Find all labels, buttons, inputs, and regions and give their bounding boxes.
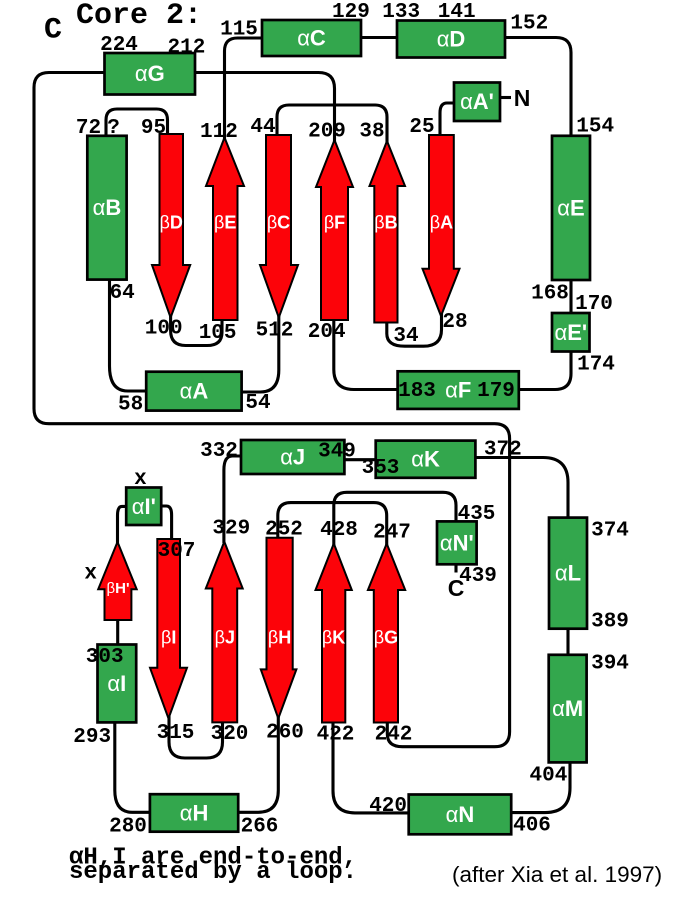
- wire alphaG-left long loop to betaG-bottom (224 to 242): [34, 73, 510, 747]
- svg-text:αK: αK: [411, 447, 440, 472]
- wire alphaJ-left to betaJ-tip (332 to 329): [224, 456, 241, 543]
- svg-text:332: 332: [200, 440, 238, 463]
- svg-text:141: 141: [438, 1, 476, 24]
- wire alphaG-right to betaF-tip (212 to 209): [195, 73, 335, 143]
- svg-text:252: 252: [265, 518, 303, 541]
- helix αM (alphaM): [549, 655, 587, 763]
- svg-text:βI: βI: [161, 628, 176, 648]
- svg-text:329: 329: [212, 518, 250, 541]
- wire alphaAp-right to N-terminus: [500, 96, 511, 99]
- svg-text:C: C: [448, 575, 465, 601]
- svg-text:320: 320: [211, 723, 249, 746]
- svg-text:βA: βA: [430, 213, 453, 233]
- svg-text:34: 34: [393, 325, 418, 348]
- svg-text:Core 2:: Core 2:: [76, 0, 202, 33]
- helix αI (alphaI): [98, 645, 137, 723]
- svg-text:266: 266: [241, 816, 279, 839]
- svg-text:168: 168: [531, 283, 569, 306]
- svg-text:307: 307: [158, 540, 196, 563]
- svg-text:439: 439: [459, 565, 497, 588]
- svg-text:αE': αE': [554, 320, 587, 345]
- svg-text:280: 280: [109, 816, 147, 839]
- svg-text:(after Xia et al. 1997): (after Xia et al. 1997): [452, 862, 662, 887]
- svg-text:204: 204: [308, 321, 346, 344]
- strand βC (betaC) down-arrow: [260, 135, 298, 318]
- svg-text:αG: αG: [135, 61, 165, 86]
- strand βF (betaF) up-arrow: [316, 140, 353, 320]
- wire alphaIp-right to betaI-top (307): [161, 506, 171, 540]
- svg-text:44: 44: [250, 116, 275, 139]
- wire betaK-tip to alphaNp-top (428 to 435): [334, 492, 456, 546]
- svg-text:512: 512: [256, 320, 294, 343]
- svg-text:αA': αA': [460, 89, 494, 114]
- svg-text:95: 95: [141, 117, 166, 140]
- wire alphaB-top to betaD-top (72? to 95): [106, 109, 168, 137]
- wire alphaI-bottom to alphaH-left (293 to 280): [115, 722, 150, 812]
- wire betaD-tip to betaE-bottom (100 to 105): [171, 315, 222, 346]
- wire alphaJ-right to alphaK-left (349 to 353): [344, 458, 375, 461]
- svg-text:406: 406: [513, 815, 551, 838]
- svg-text:αM: αM: [552, 696, 583, 721]
- svg-text:βD: βD: [160, 213, 183, 233]
- strand βA (betaA) down-arrow: [423, 135, 460, 316]
- svg-text:βH': βH': [106, 580, 129, 597]
- svg-text:64: 64: [110, 282, 135, 305]
- helix αB (alphaB): [87, 136, 126, 280]
- svg-text:x: x: [134, 468, 147, 491]
- helix αD (alphaD): [397, 21, 505, 58]
- svg-text:βB: βB: [374, 213, 397, 233]
- helix αA' (alphaAp): [454, 83, 500, 122]
- strand βH (betaH) down-arrow: [261, 538, 297, 719]
- helix αL (alphaL): [549, 518, 587, 629]
- helix αN' (alphaNp): [437, 521, 477, 564]
- wire alphaL-bottom to alphaM-top (389 to 394): [566, 628, 569, 655]
- wire betaB-bottom to betaA-tip (34 to 28): [387, 313, 442, 346]
- svg-text:115: 115: [220, 19, 258, 42]
- helix αA (alphaA): [146, 372, 241, 411]
- svg-text:389: 389: [591, 611, 629, 634]
- strand βG (betaG) up-arrow: [368, 544, 405, 723]
- svg-text:αN: αN: [446, 802, 475, 827]
- svg-text:174: 174: [577, 354, 615, 377]
- svg-text:αD: αD: [437, 27, 466, 52]
- svg-text:βE: βE: [214, 213, 236, 233]
- svg-text:αB: αB: [93, 195, 122, 220]
- wire betaH-top to betaG-tip (252 to 247): [278, 503, 387, 548]
- svg-text:420: 420: [369, 795, 407, 818]
- svg-text:404: 404: [529, 765, 567, 788]
- svg-text:βH: βH: [268, 628, 291, 648]
- svg-text:372: 372: [484, 438, 522, 461]
- svg-text:374: 374: [591, 520, 629, 543]
- strand βJ (betaJ) up-arrow: [206, 542, 243, 723]
- wire alphaH-right to betaH-tip (266 to 260): [238, 716, 278, 812]
- strand βK (betaK) up-arrow: [316, 544, 352, 723]
- helix αF (alphaF): [398, 371, 519, 409]
- wire betaC-top to betaB-tip (44 to 38): [277, 105, 387, 144]
- helix αK (alphaK): [376, 441, 476, 478]
- wire alphaNp-bottom to C-terminus (439): [454, 564, 457, 573]
- svg-text:αN': αN': [440, 530, 474, 555]
- svg-text:315: 315: [157, 722, 195, 745]
- svg-text:183: 183: [398, 380, 436, 403]
- strand βB (betaB) up-arrow: [370, 141, 406, 323]
- svg-text:αJ: αJ: [280, 445, 305, 470]
- helix αN (alphaN): [409, 795, 512, 835]
- wire betaA-top to alphaAp-left (25): [440, 103, 454, 136]
- svg-text:αH: αH: [180, 801, 209, 826]
- svg-text:βK: βK: [322, 628, 345, 648]
- svg-text:242: 242: [375, 724, 413, 747]
- svg-text:394: 394: [591, 653, 629, 676]
- svg-text:179: 179: [477, 380, 515, 403]
- svg-text:435: 435: [458, 503, 496, 526]
- svg-text:βC: βC: [267, 213, 290, 233]
- svg-text:58: 58: [118, 394, 143, 417]
- svg-text:293: 293: [73, 726, 111, 749]
- wire alphaD-right to alphaE-top (152 to 154): [505, 38, 571, 137]
- svg-text:209: 209: [308, 121, 346, 144]
- svg-text:247: 247: [373, 522, 411, 545]
- svg-text:72: 72: [76, 117, 101, 140]
- svg-text:54: 54: [245, 392, 270, 415]
- wire betaE-tip to alphaC-left (112 to 115): [225, 38, 263, 140]
- svg-text:353: 353: [362, 457, 400, 480]
- strand βE (betaE) up-arrow: [206, 138, 244, 321]
- svg-text:105: 105: [199, 322, 237, 345]
- svg-text:152: 152: [510, 13, 548, 36]
- wire alphaK-right to alphaL-top (372 to 374): [475, 458, 568, 519]
- helix αJ (alphaJ): [241, 440, 344, 474]
- svg-text:38: 38: [359, 121, 384, 144]
- strand βI (betaI) down-arrow: [150, 539, 187, 719]
- svg-text:303: 303: [86, 646, 124, 669]
- wire alphaN-right to alphaM-bottom (406 to 404): [510, 763, 570, 813]
- svg-text:αE: αE: [557, 195, 584, 220]
- wire betaK-bottom to alphaN-left (422 to 420): [333, 721, 409, 813]
- wire betaI-tip to betaJ-bottom (315 to 320): [169, 716, 223, 758]
- svg-text:154: 154: [576, 115, 614, 138]
- helix αH (alphaH): [150, 794, 238, 832]
- wire alphaEp-bottom to alphaF-right (174 to 179): [519, 351, 571, 390]
- svg-text:100: 100: [145, 317, 183, 340]
- svg-text:αA: αA: [180, 379, 209, 404]
- wire alphaA-right to betaC-tip (54 to 512): [242, 316, 279, 392]
- svg-text:129: 129: [332, 1, 370, 24]
- svg-text:133: 133: [382, 1, 420, 24]
- wire alphaIp-left to betaHp-tip: [118, 506, 127, 543]
- svg-text:25: 25: [409, 116, 434, 139]
- svg-text:αL: αL: [555, 561, 581, 586]
- svg-text:28: 28: [442, 311, 467, 334]
- wire betaF-bottom to alphaF-left (204 to 183): [334, 319, 398, 390]
- svg-text:αI: αI: [107, 671, 126, 696]
- svg-text:x: x: [84, 563, 97, 586]
- svg-text:N: N: [514, 85, 531, 111]
- svg-text:112: 112: [200, 121, 238, 144]
- wire betaHp-bottom to alphaI-top (303): [116, 619, 119, 645]
- svg-text:βG: βG: [374, 628, 398, 648]
- svg-text:428: 428: [320, 519, 358, 542]
- svg-text:170: 170: [575, 293, 613, 316]
- svg-text:212: 212: [167, 37, 205, 60]
- svg-text:?: ?: [107, 117, 120, 140]
- helix αE' (alphaEp): [552, 313, 590, 352]
- svg-text:αC: αC: [297, 26, 326, 51]
- svg-text:αF: αF: [445, 378, 471, 403]
- svg-text:separated by a loop.: separated by a loop.: [69, 859, 357, 886]
- strand βD (betaD) down-arrow: [152, 134, 190, 318]
- helix αI' (alphaIp): [126, 488, 161, 526]
- svg-text:βF: βF: [324, 213, 345, 233]
- svg-text:224: 224: [100, 34, 138, 57]
- strand βH' (betaHp) up-arrow: [98, 542, 137, 620]
- helix αC (alphaC): [262, 20, 361, 56]
- wire alphaC-right to alphaD-left (129 to 133): [361, 36, 397, 39]
- svg-text:349: 349: [318, 440, 356, 463]
- svg-text:βJ: βJ: [215, 628, 235, 648]
- svg-text:260: 260: [266, 722, 304, 745]
- helix αG (alphaG): [105, 53, 196, 95]
- svg-text:422: 422: [317, 724, 355, 747]
- helix αE (alphaE): [552, 136, 590, 280]
- wire alphaB-bottom to alphaA-left (64 to 58): [110, 279, 147, 391]
- svg-text:C: C: [44, 14, 62, 48]
- wire alphaE-bottom to alphaEp-top (168 to 170): [569, 279, 572, 314]
- svg-text:αI': αI': [132, 494, 156, 519]
